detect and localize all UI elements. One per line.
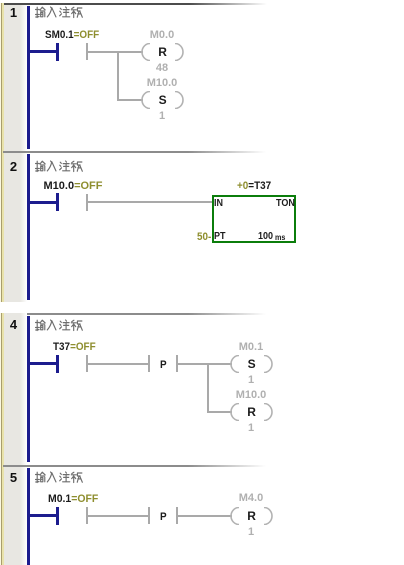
junction branch down N4 xyxy=(207,363,209,412)
network 5 number xyxy=(4,471,24,484)
network 4 left gutter xyxy=(0,313,27,565)
address M0.0 xyxy=(132,30,192,41)
shared comment glyph defs xyxy=(0,0,1,1)
contact P right leg xyxy=(176,355,178,372)
value 100 ms xyxy=(258,232,273,242)
network 2 number xyxy=(4,160,24,173)
node label SM0.1=OFF xyxy=(45,30,99,41)
wire: N4 rail to contact (navy) xyxy=(27,362,57,365)
node label M10.0=OFF xyxy=(44,181,103,192)
wire: N2 rail to contact (navy) xyxy=(27,201,57,204)
timer box T37 TON xyxy=(212,195,296,243)
network 1 left gutter xyxy=(0,3,27,302)
node label T37=OFF xyxy=(53,342,96,353)
pin label TON xyxy=(276,199,295,209)
network 5 comment 输入注释 xyxy=(35,471,83,484)
wire: contact to timer box xyxy=(88,201,212,203)
timer label +0=T37 xyxy=(237,181,271,192)
network 4 number xyxy=(4,318,24,331)
contact M0.1 right leg xyxy=(86,507,88,524)
top border line xyxy=(4,3,274,5)
contact P left leg xyxy=(148,355,150,372)
wire: N1 rail to contact (navy) xyxy=(27,50,57,53)
operand 1 xyxy=(221,527,281,538)
network 4 comment 输入注释 xyxy=(35,319,83,332)
separator network 5 xyxy=(3,465,273,467)
letter P xyxy=(160,360,167,371)
constant 50- xyxy=(197,232,211,243)
contact P right leg N5 xyxy=(176,507,178,524)
address M10.0 xyxy=(221,390,281,401)
pin PT xyxy=(214,232,226,242)
wire: branch to coil S xyxy=(117,99,143,101)
network 1 number xyxy=(4,6,24,19)
operand 1 xyxy=(132,111,192,122)
operand 48 xyxy=(132,63,192,74)
contact T37 left leg (navy) xyxy=(56,355,59,373)
wire: contact to coil R xyxy=(88,51,143,53)
pin IN xyxy=(214,199,223,209)
contact T37 right leg xyxy=(86,355,88,372)
node label M0.1=OFF xyxy=(48,494,98,505)
wire: contact to P contact xyxy=(88,363,148,365)
contact SM0.1 right leg xyxy=(86,43,88,60)
network 1 power rail xyxy=(27,6,30,149)
wire: P to coil R N5 xyxy=(178,515,232,517)
address M0.1 xyxy=(221,342,281,353)
coil R M0.0 xyxy=(140,43,185,61)
contact M10.0 right leg xyxy=(86,194,88,211)
network 4 power rail xyxy=(27,316,30,462)
coil S M10.0 xyxy=(140,91,185,109)
contact P left leg N5 xyxy=(148,507,150,524)
address M10.0 xyxy=(132,78,192,89)
junction branch down xyxy=(117,51,119,100)
network 5 power rail xyxy=(27,468,30,565)
wire: contact to P contact N5 xyxy=(88,515,148,517)
wire: N5 rail to contact (navy) xyxy=(27,514,57,517)
wire: P to coil S xyxy=(178,363,232,365)
contact M0.1 left leg (navy) xyxy=(56,507,59,525)
coil R M4.0 xyxy=(229,507,274,525)
separator network 4 xyxy=(3,313,273,315)
letter P xyxy=(160,512,167,523)
wire: branch to coil R N4 xyxy=(207,411,232,413)
contact M10.0 left leg (navy) xyxy=(56,193,59,211)
network 1 comment 输入注释 xyxy=(35,6,83,19)
separator network 2 xyxy=(3,151,273,153)
address M4.0 xyxy=(221,493,281,504)
coil S M0.1 xyxy=(229,355,274,373)
contact SM0.1 left leg (navy) xyxy=(56,43,59,61)
coil R M10.0 xyxy=(229,403,274,421)
network 2 comment 输入注释 xyxy=(35,160,83,173)
operand 1 xyxy=(221,423,281,434)
operand 1 xyxy=(221,375,281,386)
network 2 power rail xyxy=(27,154,30,300)
